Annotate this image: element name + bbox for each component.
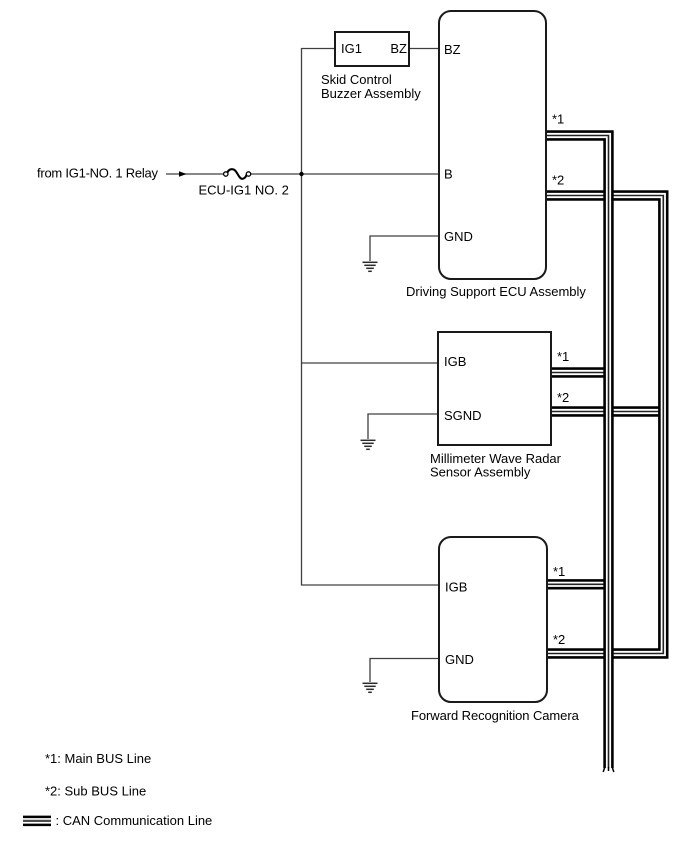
svg-text:BZ: BZ (390, 41, 407, 56)
svg-text:*1: *1 (557, 349, 569, 364)
svg-text:*1: Main BUS Line: *1: Main BUS Line (45, 751, 151, 766)
svg-text:Sensor Assembly: Sensor Assembly (430, 464, 531, 479)
svg-text:Driving Support ECU Assembly: Driving Support ECU Assembly (406, 284, 586, 299)
svg-text:from IG1-NO. 1 Relay: from IG1-NO. 1 Relay (37, 166, 158, 181)
svg-text:ECU-IG1 NO. 2: ECU-IG1 NO. 2 (199, 182, 289, 197)
svg-text:SGND: SGND (444, 408, 482, 423)
svg-text:BZ: BZ (444, 42, 461, 57)
svg-text:IGB: IGB (444, 354, 466, 369)
svg-text:Forward Recognition Camera: Forward Recognition Camera (411, 708, 580, 723)
svg-text:*2: *2 (557, 390, 569, 405)
svg-text:GND: GND (444, 229, 473, 244)
svg-text:*2: *2 (552, 173, 564, 188)
svg-text:B: B (444, 167, 453, 182)
svg-text:: CAN Communication Line: : CAN Communication Line (56, 813, 213, 828)
svg-text:IGB: IGB (445, 580, 467, 595)
svg-text:IG1: IG1 (341, 41, 362, 56)
svg-text:*2: *2 (553, 632, 565, 647)
svg-text:Skid Control: Skid Control (321, 72, 392, 87)
svg-text:*2: Sub BUS Line: *2: Sub BUS Line (45, 784, 146, 799)
svg-text:Buzzer Assembly: Buzzer Assembly (321, 86, 421, 101)
svg-text:*1: *1 (553, 564, 565, 579)
svg-text:*1: *1 (552, 112, 564, 127)
svg-text:GND: GND (445, 652, 474, 667)
